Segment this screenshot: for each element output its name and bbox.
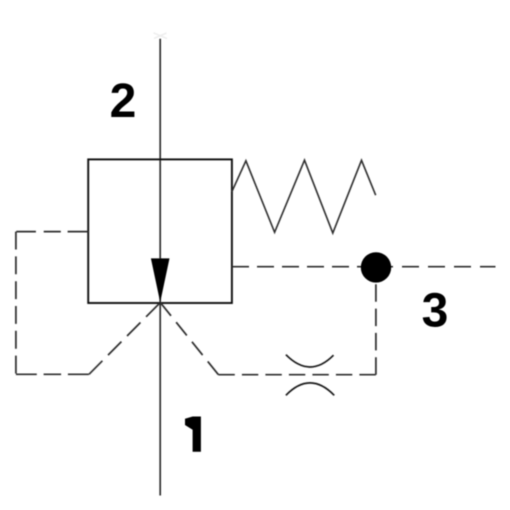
pilot wire: dashed horizontal from box left edge to corner [16,231,88,233]
spring [232,160,376,233]
svg-text:3: 3 [422,285,449,338]
junction node (filled dot) on port 3 line [361,252,391,282]
pilot wire: dashed line from box right edge to node [232,266,376,268]
port label 1 (Arial-style: stem + flag, no foot) [185,417,201,452]
orifice (restriction) upper arc [286,355,334,367]
pilot wire: dashed diagonal from arrow tip down-left [89,303,160,375]
pilot wire: dashed horizontal through orifice [218,374,375,376]
valve body U1 (square envelope) [88,159,232,303]
pilot wire: dashed vertical from orifice-line corner up to node [375,267,377,375]
pilot wire: dashed horizontal bottom-left [16,373,89,375]
pilot wire: dashed vertical left side [15,232,17,375]
svg-text:2: 2 [110,75,137,128]
faint smudge artifact above line top [154,33,168,39]
pilot wire: dashed diagonal from orifice line up to arrow tip [160,303,218,375]
flow arrow (poppet, pointing down) [151,258,170,302]
wire: main vertical flow line (port 2 to port 1) [159,39,161,496]
orifice (restriction) lower arc [286,383,334,395]
pilot wire: dashed line from node to port 3 end [376,266,496,268]
